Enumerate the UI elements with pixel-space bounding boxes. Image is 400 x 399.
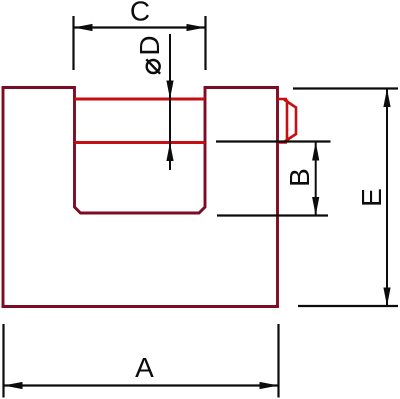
dimension B down arrowhead [312,197,319,216]
shackle bolt bottom line [75,141,206,144]
dimension D lower arrow line [169,143,171,171]
dimension E top reference line [293,87,398,89]
dimension B top reference line [216,140,331,142]
svg-text:A: A [135,352,154,383]
shackle bolt stub right [278,99,288,143]
dimension E bottom reference line [298,305,398,307]
dimension C right tick [204,16,206,70]
dimension B line [315,142,317,216]
dimension E up arrowhead [383,89,390,108]
svg-text:E: E [356,188,387,207]
dimension A left arrowhead [4,382,23,389]
dimension A line [4,384,279,386]
dimension D lower arrowhead [166,143,173,162]
svg-text:B: B [284,168,315,187]
dimension B bottom reference line [217,214,328,216]
padlock body outline [3,88,278,307]
dimension A left tick [2,324,4,398]
shackle bolt top line [75,98,206,101]
dimension D upper arrowhead [166,81,173,100]
dimension A right tick [277,324,279,398]
dimension C right arrowhead [187,24,206,31]
dimension C line [74,26,206,28]
svg-text:D: D [134,35,165,55]
svg-text:C: C [130,0,150,26]
diameter symbol circle [147,60,160,73]
dimension C left arrowhead [74,24,93,31]
dimension C left tick [72,16,74,70]
dimension B up arrowhead [312,142,319,161]
dimension E down arrowhead [383,288,390,307]
dimension E line [386,89,388,307]
shackle bolt cap [284,100,296,143]
diameter symbol slash [146,59,160,73]
dimension D upper arrow line [169,34,171,143]
dimension A right arrowhead [260,382,279,389]
